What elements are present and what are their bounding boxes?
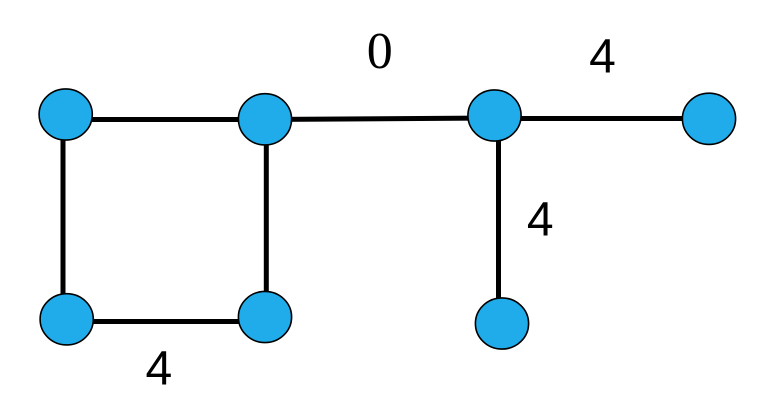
node D far-right xyxy=(682,93,735,144)
node C top-right-center xyxy=(468,90,521,141)
node F bottom-middle xyxy=(238,291,291,342)
node A top-left xyxy=(39,89,92,140)
svg-text:4: 4 xyxy=(589,30,616,83)
svg-text:4: 4 xyxy=(527,194,554,247)
svg-text:4: 4 xyxy=(145,343,172,396)
node E bottom-left xyxy=(40,294,93,345)
svg-text:0: 0 xyxy=(367,23,393,80)
wire edge E-F (label 4) xyxy=(66,319,265,324)
wire edge C-D (label 4) xyxy=(495,116,710,121)
node B top-middle xyxy=(238,94,291,145)
wire edge B-F xyxy=(264,119,269,317)
node G bottom-right xyxy=(475,298,528,349)
wire edge A-E xyxy=(61,114,66,319)
wire edge B-C (label 0) xyxy=(265,118,495,120)
wire edge C-G (label 4) xyxy=(496,115,501,323)
wire edge A-B xyxy=(65,117,265,122)
